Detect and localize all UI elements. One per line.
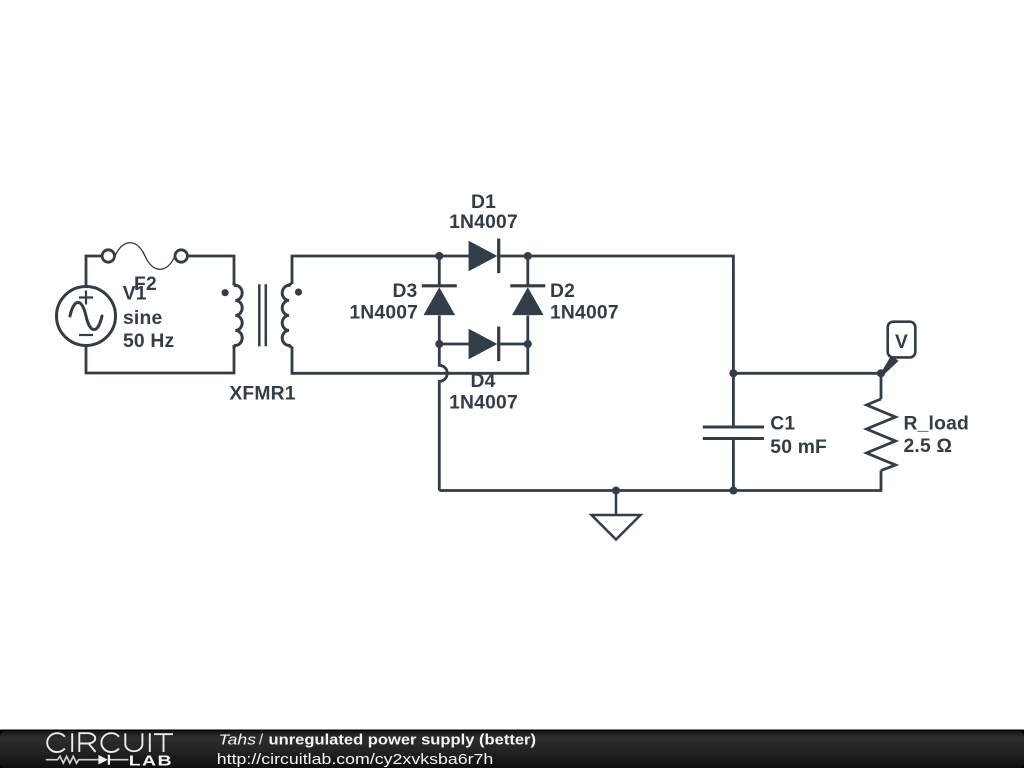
transformer core: [259, 284, 266, 346]
logo resistor-diode glyph: [46, 755, 129, 765]
svg-text:LAB: LAB: [129, 752, 173, 768]
svg-text:1N4007: 1N4007: [349, 303, 418, 324]
V1 plus sign: [79, 291, 93, 305]
wire: V1 bottom loop to primary bottom: [86, 346, 234, 374]
svg-text:C1: C1: [770, 413, 795, 434]
wire: fuse to transformer primary top: [188, 256, 234, 284]
V1 minus sign: [79, 334, 93, 336]
ground: [592, 491, 641, 540]
footer bar: [0, 730, 1024, 768]
secondary phase dot: [295, 289, 302, 296]
wire: top rail to C1 column: [528, 256, 734, 427]
diode D1: [469, 239, 499, 274]
svg-text:D1: D1: [471, 192, 496, 213]
svg-text:D3: D3: [392, 281, 417, 302]
junction node: bridge top-right: [524, 252, 532, 260]
svg-text:R_load: R_load: [904, 413, 969, 434]
svg-text:V: V: [895, 332, 908, 353]
svg-text:1N4007: 1N4007: [449, 393, 518, 414]
svg-text:unregulated power supply (bett: unregulated power supply (better): [269, 732, 537, 748]
junction node: R_load top tap: [877, 369, 885, 377]
logo CIRCUIT: [47, 733, 173, 752]
diode D4: [469, 327, 499, 362]
diode D3: [422, 286, 457, 315]
wire: R_load top lead: [880, 373, 883, 399]
fuse F2: [102, 243, 187, 270]
voltage source V1 circle: [57, 287, 116, 346]
junction node: bridge top-left: [435, 252, 443, 260]
wire: bridge bottom-left node down with hop over mid wire: [439, 344, 447, 491]
svg-text:XFMR1: XFMR1: [229, 384, 295, 405]
primary phase dot: [222, 289, 229, 296]
svg-text:50 mF: 50 mF: [770, 437, 827, 458]
junction node: C1 top tap: [729, 369, 737, 377]
svg-text:50 Hz: 50 Hz: [123, 331, 174, 352]
V1 sine symbol: [70, 303, 102, 330]
svg-text:http://circuitlab.com/cy2xvksb: http://circuitlab.com/cy2xvksba6r7h: [217, 752, 494, 768]
secondary winding: [282, 284, 292, 347]
diode D2: [510, 286, 545, 315]
resistor R_load zigzag: [867, 399, 896, 471]
wire: bridge top D1 segments: [439, 255, 528, 258]
junction node: C1 bottom on rail: [729, 486, 737, 494]
wire: secondary top to bridge left node: [292, 256, 439, 284]
svg-text:V1: V1: [123, 284, 147, 305]
svg-text:Tahs: Tahs: [219, 732, 257, 748]
svg-text:sine: sine: [123, 308, 162, 329]
wire: bridge bottom D4 segments: [439, 343, 528, 346]
svg-text:D4: D4: [470, 371, 495, 392]
wire: bridge right branch: [526, 256, 529, 344]
svg-text:D2: D2: [550, 281, 575, 302]
wire: secondary bottom to bridge lower-right corner: [292, 344, 528, 373]
svg-text:2.5 Ω: 2.5 Ω: [904, 436, 953, 457]
capacitor C1: [703, 427, 764, 439]
primary winding: [233, 284, 243, 347]
svg-text:1N4007: 1N4007: [449, 212, 518, 233]
wire: mid wire C1 to R_load: [733, 372, 881, 375]
wire: bridge left branch: [438, 256, 441, 344]
junction node: bridge bottom-left: [435, 340, 443, 348]
voltmeter probe V: [881, 322, 916, 376]
transformer XFMR1: [222, 284, 303, 347]
svg-text:1N4007: 1N4007: [550, 303, 619, 324]
wire: C1 bottom to rail: [732, 439, 735, 491]
wire: R_load bottom lead and bottom rail: [439, 471, 881, 491]
junction node: ground on rail: [612, 486, 620, 494]
logo LAB: [129, 752, 173, 768]
junction node: bridge bottom-right: [524, 340, 532, 348]
wire: V1 top to fuse: [86, 256, 102, 287]
